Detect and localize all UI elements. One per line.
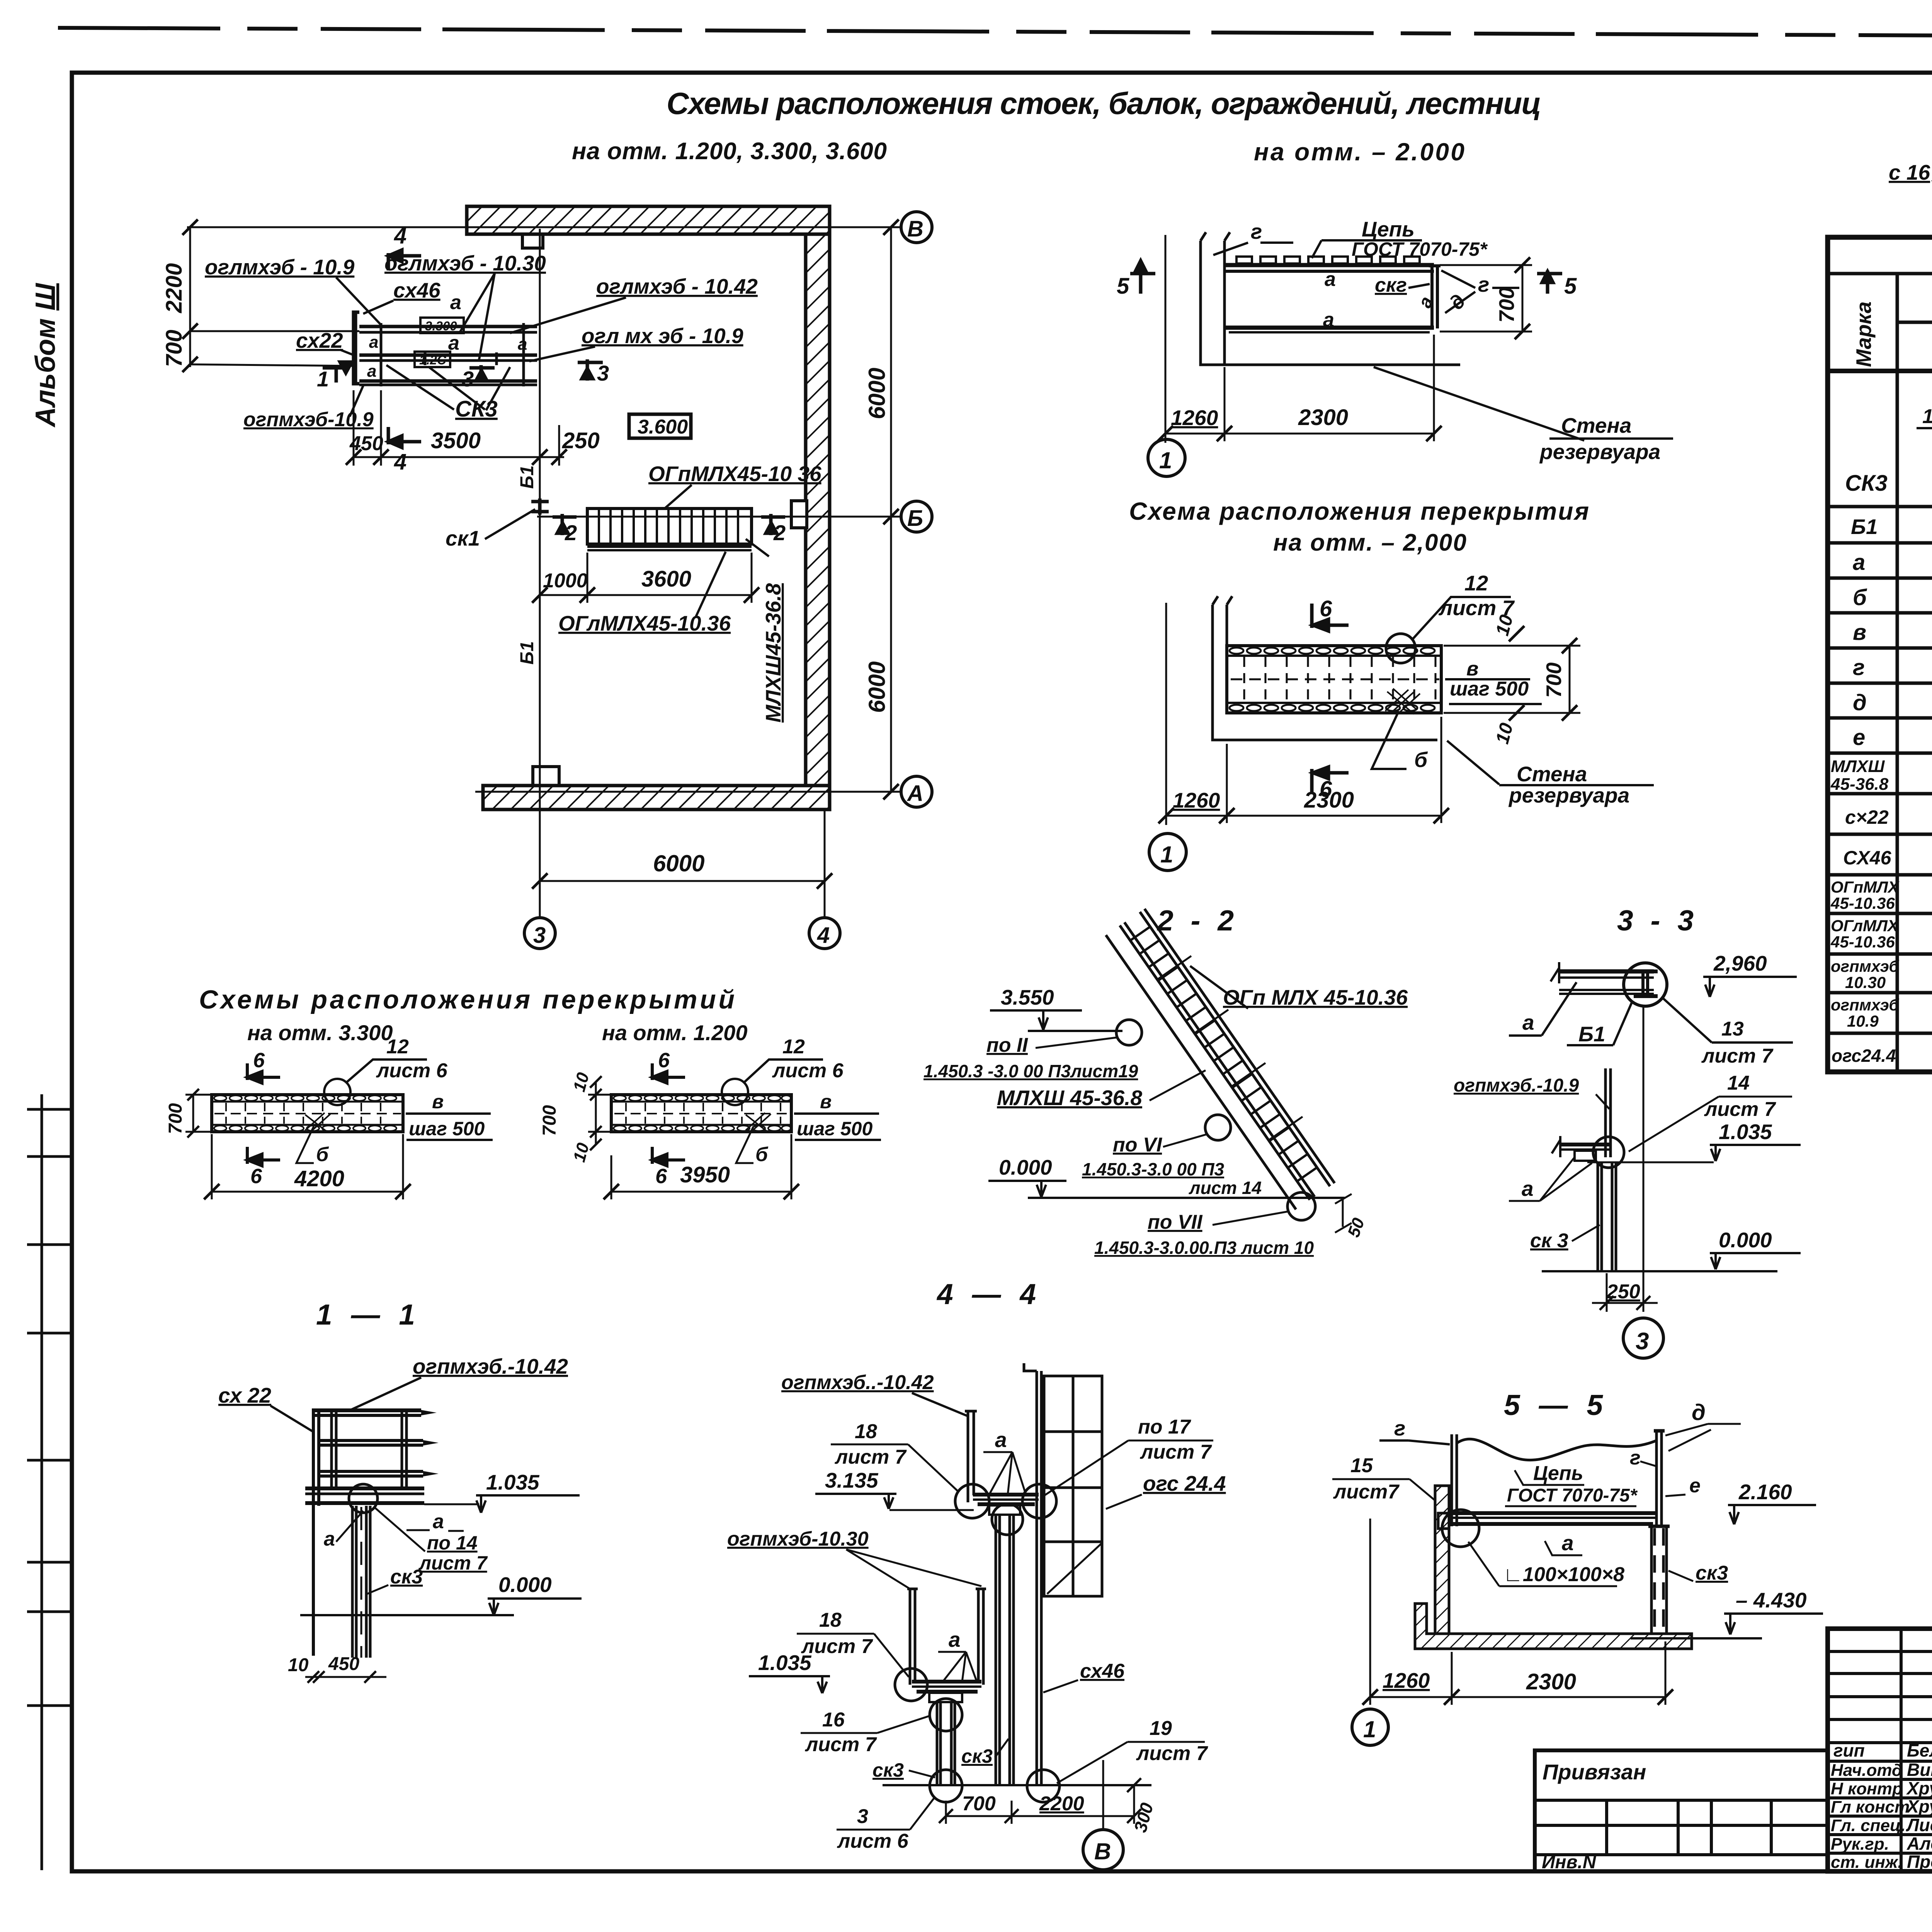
- svg-text:1260: 1260: [1173, 788, 1220, 812]
- 1.2C boxed mark: [415, 352, 450, 367]
- vertical angle bar: [1605, 1068, 1611, 1157]
- upper bracket left upright: [965, 1411, 977, 1502]
- svg-text:3 - 3: 3 - 3: [1617, 904, 1698, 937]
- svg-text:б: б: [1853, 585, 1867, 610]
- svg-text:1.035: 1.035: [486, 1470, 540, 1494]
- 1000/3600 dimension: [540, 594, 752, 596]
- svg-text:МЛХШ45-36.8: МЛХШ45-36.8: [761, 583, 785, 723]
- joint circle: [1442, 1510, 1479, 1547]
- svg-text:12: 12: [1464, 571, 1488, 595]
- signature table horizontals: [1828, 1651, 1932, 1853]
- railing balusters: [332, 1410, 406, 1488]
- ladder rungs: [1130, 927, 1317, 1181]
- svg-text:6: 6: [253, 1049, 265, 1072]
- svg-text:гип: гип: [1833, 1740, 1865, 1760]
- svg-text:резервуара: резервуара: [1508, 783, 1629, 807]
- axis line 4 vertical: [824, 810, 826, 918]
- column SK3: [1598, 1162, 1616, 1270]
- svg-text:по II: по II: [986, 1034, 1028, 1056]
- svg-text:г: г: [1394, 1416, 1405, 1440]
- bracket shelf: [1552, 1136, 1611, 1161]
- left bracket cx22: [354, 312, 359, 384]
- svg-text:огпмхэб.-10.9: огпмхэб.-10.9: [1454, 1075, 1579, 1096]
- svg-text:с×22: с×22: [1845, 806, 1889, 828]
- svg-text:6: 6: [655, 1165, 667, 1188]
- inclined ladder stringers: [1106, 909, 1335, 1209]
- svg-text:ОГп МЛХ 45-10.36: ОГп МЛХ 45-10.36: [1223, 985, 1408, 1009]
- svg-text:1 — 1: 1 — 1: [316, 1298, 420, 1331]
- svg-text:3500: 3500: [431, 428, 481, 453]
- svg-text:на отм. 1.200, 3.300, 3.600: на отм. 1.200, 3.300, 3.600: [572, 138, 887, 165]
- dims 1260/2300: [1370, 1696, 1665, 1698]
- svg-text:ск3: ск3: [390, 1566, 423, 1588]
- plan bottom wall (hatched): [483, 786, 830, 810]
- svg-text:450: 450: [328, 1654, 359, 1674]
- svg-text:сх 22: сх 22: [218, 1383, 271, 1407]
- svg-text:Б1: Б1: [517, 641, 537, 665]
- svg-text:1: 1: [1363, 1716, 1376, 1742]
- svg-text:Схема расположения перекрыти: Схема расположения перекрытия: [1129, 497, 1589, 525]
- svg-text:19: 19: [1150, 1717, 1172, 1740]
- svg-text:10: 10: [570, 1141, 593, 1164]
- water break wavy top: [1457, 1439, 1656, 1460]
- svg-text:е: е: [1853, 725, 1865, 750]
- axis circle 1: [1352, 1709, 1388, 1745]
- svg-text:а: а: [1415, 294, 1437, 311]
- beam at 1.200: [359, 354, 537, 357]
- left tank wall hatched: [1435, 1486, 1449, 1636]
- svg-text:шаг 500: шаг 500: [1450, 678, 1529, 700]
- section mark 2 left: [553, 514, 577, 535]
- signature table verticals: [1901, 1629, 1932, 1871]
- 3.300 boxed mark: [420, 318, 464, 333]
- svg-text:МЛХШ 45-36.8: МЛХШ 45-36.8: [997, 1086, 1142, 1110]
- section mark 1: [323, 362, 352, 383]
- 3950 dim: [611, 1191, 791, 1193]
- joint circles lower: [895, 1668, 927, 1701]
- svg-text:45-10.36: 45-10.36: [1830, 894, 1895, 912]
- svg-text:Винклер: Винклер: [1907, 1760, 1932, 1780]
- svg-text:а: а: [949, 1628, 961, 1651]
- svg-text:18: 18: [855, 1420, 877, 1443]
- axis line V: [187, 226, 901, 228]
- svg-text:5: 5: [1564, 274, 1577, 299]
- svg-text:В: В: [907, 216, 923, 241]
- svg-text:в: в: [1853, 620, 1866, 645]
- svg-text:2: 2: [565, 520, 577, 545]
- svg-text:В: В: [1094, 1838, 1111, 1864]
- svg-text:лист 7: лист 7: [804, 1733, 877, 1756]
- svg-text:лист 7: лист 7: [834, 1446, 907, 1468]
- svg-text:50: 50: [1344, 1215, 1368, 1240]
- section mark 5 right: [1537, 270, 1562, 294]
- svg-text:1.450.3 -3.0 00 П3лист19: 1.450.3 -3.0 00 П3лист19: [923, 1061, 1138, 1081]
- svg-text:ск3: ск3: [961, 1745, 993, 1767]
- svg-text:а: а: [450, 291, 461, 314]
- svg-text:б: б: [1414, 748, 1428, 772]
- detail circle po VII: [1287, 1192, 1315, 1220]
- svg-text:10: 10: [1492, 721, 1517, 746]
- cross-hatched patch: [1385, 689, 1420, 715]
- platform beam assembly: [354, 312, 537, 386]
- plan top wall (hatched): [467, 206, 830, 234]
- svg-text:1: 1: [1922, 405, 1932, 428]
- platform beam: [1438, 1513, 1656, 1529]
- slab 3.300 body: [212, 1095, 403, 1132]
- svg-text:а: а: [518, 335, 527, 354]
- svg-text:Хрупало: Хрупало: [1906, 1778, 1932, 1798]
- section mark 2 right: [761, 514, 785, 535]
- svg-text:1.2С: 1.2С: [419, 353, 447, 367]
- svg-text:700: 700: [1542, 662, 1566, 698]
- svg-text:огпмхэб..-10.42: огпмхэб..-10.42: [781, 1371, 934, 1394]
- ground line: [883, 1784, 1151, 1786]
- svg-text:Альбом Ш: Альбом Ш: [30, 283, 61, 428]
- top edge banding: [1227, 655, 1441, 657]
- svg-text:огл мх эб - 10.9: огл мх эб - 10.9: [582, 324, 743, 348]
- svg-text:13: 13: [1721, 1018, 1744, 1040]
- svg-text:оглмхэб - 10.30: оглмхэб - 10.30: [384, 251, 546, 275]
- svg-text:ск3: ск3: [1696, 1562, 1728, 1584]
- axis circle A: [901, 776, 932, 807]
- column SK3: [352, 1506, 370, 1658]
- svg-text:огпмхэб.-10.42: огпмхэб.-10.42: [413, 1354, 568, 1378]
- svg-text:ОГпМЛХ45-10 36: ОГпМЛХ45-10 36: [648, 462, 821, 486]
- svg-text:6: 6: [1320, 596, 1332, 621]
- svg-text:Гл конст: Гл конст: [1831, 1798, 1910, 1816]
- svg-text:а: а: [433, 1510, 444, 1533]
- svg-text:лист7: лист7: [1333, 1481, 1400, 1503]
- svg-text:Цепь: Цепь: [1362, 217, 1415, 241]
- svg-text:по VII: по VII: [1148, 1211, 1203, 1233]
- beam seat notch below top wall: [522, 234, 543, 248]
- 10/700/10 dims slab 1.200: [595, 1082, 597, 1145]
- wall notch at axis B: [791, 501, 807, 528]
- 10/450 dims: [305, 1676, 386, 1678]
- ground line: [1542, 1270, 1777, 1272]
- svg-text:г: г: [1853, 655, 1865, 680]
- svg-text:2 - 2: 2 - 2: [1156, 904, 1238, 937]
- section mark 6 bottom: [1312, 767, 1349, 794]
- left extension line: [1165, 235, 1167, 443]
- svg-text:г: г: [1251, 219, 1262, 243]
- svg-text:Б1: Б1: [1851, 515, 1878, 539]
- dims 700/2200/300: [946, 1815, 1134, 1817]
- detail circle slab 1.200: [722, 1079, 748, 1105]
- 6 marks slab 3.300: [247, 1063, 280, 1083]
- svg-text:Схемы расположения стоек,: Схемы расположения стоек, балок, огражде…: [667, 86, 1544, 121]
- svg-text:3.300: 3.300: [425, 319, 457, 333]
- svg-text:6: 6: [658, 1049, 670, 1072]
- svg-text:а: а: [367, 362, 376, 381]
- beam at 3.300: [359, 325, 537, 328]
- detail circle with I-beam B1: [1624, 963, 1667, 1006]
- stena rezervuara label: [1447, 741, 1499, 784]
- svg-text:1: 1: [1160, 842, 1173, 867]
- svg-text:на отм. – 2.000: на отм. – 2.000: [1254, 138, 1464, 166]
- left extension line: [1165, 603, 1167, 825]
- oval hatch top strip: [1230, 648, 1435, 711]
- main title block outer: [1828, 1629, 1932, 1871]
- svg-text:б: б: [316, 1143, 329, 1166]
- svg-text:на отм. 1.200: на отм. 1.200: [602, 1020, 747, 1045]
- svg-text:2200: 2200: [1039, 1793, 1084, 1815]
- right rail post: [1654, 1431, 1665, 1526]
- svg-text:Хрупало: Хрупало: [1906, 1796, 1932, 1816]
- svg-text:45-36.8: 45-36.8: [1830, 775, 1889, 794]
- svg-text:3.550: 3.550: [1001, 985, 1054, 1009]
- wall leader and label Stena rezervuara: [1374, 367, 1584, 440]
- svg-text:а: а: [1522, 1177, 1534, 1201]
- svg-text:10: 10: [570, 1070, 593, 1094]
- svg-text:Б1: Б1: [517, 465, 537, 489]
- bottom slab with concrete hatch: [1415, 1604, 1692, 1649]
- tall channel skh46: [1024, 1363, 1041, 1784]
- svg-text:г: г: [1478, 272, 1489, 296]
- svg-text:ст. инж.: ст. инж.: [1831, 1853, 1903, 1872]
- right 6000 dimension line: [890, 227, 892, 792]
- svg-text:огс24.4: огс24.4: [1832, 1046, 1896, 1066]
- svg-text:д: д: [1692, 1400, 1706, 1425]
- svg-text:г: г: [1630, 1447, 1641, 1469]
- fold tick marks: [27, 1109, 72, 1706]
- 6 marks slab 1.200: [652, 1063, 685, 1083]
- joint circle: [349, 1484, 378, 1513]
- svg-text:1.035: 1.035: [758, 1651, 812, 1675]
- slab 1.200 body: [611, 1095, 791, 1132]
- svg-text:10.30: 10.30: [1845, 973, 1886, 992]
- svg-text:3950: 3950: [680, 1162, 730, 1187]
- privyazan box: [1535, 1750, 1828, 1871]
- svg-text:лист 7: лист 7: [1701, 1045, 1774, 1067]
- axis circle B: [901, 501, 932, 532]
- tank wall corner: [1201, 241, 1460, 365]
- upper shelf: [973, 1495, 1039, 1515]
- svg-text:3: 3: [1636, 1328, 1649, 1355]
- svg-text:250: 250: [562, 428, 600, 453]
- lower shelf: [912, 1682, 981, 1702]
- detail circle slab 3.300: [324, 1079, 350, 1105]
- svg-text:12: 12: [782, 1036, 805, 1058]
- svg-text:6000: 6000: [864, 662, 890, 713]
- vertical stiffeners: [380, 323, 383, 386]
- svg-text:Лисичкин: Лисичкин: [1906, 1815, 1932, 1835]
- svg-text:оглмхэб - 10.9: оглмхэб - 10.9: [205, 255, 355, 279]
- SK3 sketch I-column: [1917, 395, 1932, 493]
- svg-text:лист 7: лист 7: [801, 1635, 873, 1658]
- svg-text:ОГлМЛХ45-10.36: ОГлМЛХ45-10.36: [558, 611, 731, 635]
- svg-text:700: 700: [962, 1793, 996, 1815]
- dimension 1260/2300: [1166, 815, 1441, 817]
- svg-text:45-10.36: 45-10.36: [1830, 933, 1895, 951]
- svg-text:оглмхэб - 10.42: оглмхэб - 10.42: [596, 274, 758, 298]
- svg-text:шаг 500: шаг 500: [409, 1118, 485, 1139]
- svg-text:3: 3: [597, 361, 609, 385]
- section mark 3 left: [469, 365, 495, 383]
- svg-text:0.000: 0.000: [999, 1155, 1052, 1179]
- svg-text:700: 700: [1495, 287, 1519, 323]
- axis circle 4: [809, 918, 840, 949]
- svg-text:Марка: Марка: [1852, 301, 1876, 367]
- table vertical grid: [1897, 274, 1932, 1072]
- svg-text:ОГпМЛХ: ОГпМЛХ: [1831, 878, 1900, 896]
- left extension to dim: [1369, 1519, 1371, 1705]
- svg-text:700: 700: [162, 330, 187, 367]
- svg-text:5 — 5: 5 — 5: [1504, 1389, 1608, 1421]
- svg-text:а: а: [324, 1528, 335, 1550]
- svg-text:в: в: [432, 1091, 444, 1112]
- svg-text:14: 14: [1727, 1072, 1750, 1094]
- svg-text:сх22: сх22: [296, 328, 343, 352]
- svg-text:а: а: [1853, 550, 1865, 575]
- svg-text:в: в: [1466, 658, 1478, 680]
- sk1 column I-symbol: [531, 498, 549, 515]
- svg-text:4 — 4: 4 — 4: [936, 1278, 1041, 1310]
- svg-text:с 16: с 16: [1889, 160, 1930, 184]
- svg-text:1260: 1260: [1383, 1668, 1430, 1692]
- detail circle po II: [1116, 1020, 1142, 1045]
- railing rails with arrows: [313, 1410, 423, 1476]
- axis line 3 vertical: [539, 229, 541, 918]
- right column dashed: [1648, 1526, 1670, 1636]
- svg-text:3: 3: [533, 923, 546, 948]
- svg-text:Б1: Б1: [1578, 1022, 1605, 1046]
- plan right wall (hatched): [806, 234, 830, 786]
- svg-text:ОГлМЛХ: ОГлМЛХ: [1831, 917, 1900, 935]
- svg-text:18: 18: [819, 1609, 842, 1631]
- svg-text:огс 24.4: огс 24.4: [1143, 1471, 1226, 1495]
- svg-text:е: е: [1689, 1475, 1701, 1497]
- svg-text:шаг 500: шаг 500: [797, 1118, 872, 1139]
- svg-text:3.600: 3.600: [638, 416, 688, 438]
- svg-text:СХ46: СХ46: [1843, 847, 1892, 869]
- section mark 6 top: [1312, 604, 1349, 631]
- interior dashes slab 3.300: [226, 1103, 381, 1124]
- svg-text:4: 4: [394, 223, 406, 248]
- svg-text:∟100×100×8: ∟100×100×8: [1503, 1563, 1624, 1586]
- svg-text:2300: 2300: [1298, 405, 1348, 430]
- svg-text:ГОСТ 7070-75*: ГОСТ 7070-75*: [1507, 1485, 1638, 1506]
- svg-text:а: а: [1323, 309, 1334, 331]
- grating panel ogs24.4: [1044, 1376, 1102, 1596]
- svg-text:сх46: сх46: [393, 278, 440, 302]
- axis circle 3: [524, 918, 555, 949]
- dimension 450/3500/250: [354, 456, 564, 458]
- lower column: [937, 1702, 955, 1784]
- section mark 4 top: [388, 250, 421, 270]
- interior rib dashes: [1244, 657, 1435, 702]
- svg-text:скг: скг: [1375, 274, 1407, 296]
- 700 vertical dimension: [1522, 265, 1524, 332]
- right end post g: [1429, 266, 1440, 328]
- svg-text:на отм. 3.300: на отм. 3.300: [247, 1020, 393, 1045]
- svg-text:лист 14: лист 14: [1189, 1178, 1262, 1198]
- svg-text:огпмхэб-10.30: огпмхэб-10.30: [727, 1528, 869, 1550]
- ground line: [1631, 1637, 1762, 1639]
- left 2200/700 dimension: [189, 227, 191, 367]
- svg-text:по VI: по VI: [1113, 1134, 1163, 1156]
- svg-text:Инв.N: Инв.N: [1542, 1852, 1597, 1872]
- section mark 4 bottom: [388, 427, 421, 447]
- svg-text:Гл. спец.: Гл. спец.: [1831, 1816, 1906, 1835]
- svg-text:ск3: ск3: [872, 1759, 904, 1781]
- svg-text:– 4.430: – 4.430: [1736, 1588, 1807, 1612]
- detail circle po VI: [1205, 1115, 1231, 1140]
- slab plan body: [1227, 646, 1441, 713]
- svg-text:1.450.3-3.0 00 П3: 1.450.3-3.0 00 П3: [1082, 1159, 1225, 1179]
- svg-text:в: в: [820, 1091, 832, 1112]
- svg-text:а: а: [995, 1428, 1007, 1452]
- dimension 1260/2300: [1165, 433, 1434, 435]
- svg-text:6000: 6000: [653, 850, 704, 876]
- section mark 5 left: [1130, 261, 1155, 294]
- oval hatch strips slab 3.300: [214, 1095, 396, 1131]
- tank wall corner lines: [1213, 605, 1437, 740]
- bottom 6000 dimension: [540, 880, 825, 882]
- svg-text:1.450.3-3.0.00.П3 лист 10: 1.450.3-3.0.00.П3 лист 10: [1094, 1238, 1314, 1258]
- svg-text:Б: Б: [907, 506, 923, 531]
- svg-text:лист 7: лист 7: [1136, 1742, 1208, 1765]
- svg-text:2: 2: [773, 520, 786, 545]
- svg-text:3: 3: [857, 1805, 868, 1828]
- svg-text:450: 450: [349, 432, 383, 455]
- svg-text:10: 10: [288, 1655, 309, 1675]
- svg-text:1000: 1000: [543, 570, 588, 592]
- svg-text:4200: 4200: [294, 1166, 344, 1191]
- svg-text:12: 12: [386, 1036, 409, 1058]
- svg-text:Алехова: Алехова: [1906, 1833, 1932, 1854]
- top beam: [1551, 962, 1654, 994]
- lower beam edge: [359, 379, 537, 383]
- 700 dim left: [192, 1095, 194, 1132]
- svg-text:3: 3: [462, 367, 474, 391]
- axis circle V: [1102, 1760, 1104, 1828]
- svg-text:Белоус: Белоус: [1907, 1740, 1932, 1760]
- 4200 dim: [212, 1191, 403, 1193]
- svg-text:Цепь: Цепь: [1533, 1462, 1583, 1485]
- svg-text:а: а: [448, 332, 459, 354]
- svg-text:ск1: ск1: [446, 526, 480, 550]
- element list table outer border: [1828, 237, 1932, 1072]
- top trim dashed line: [58, 28, 1932, 39]
- svg-text:3.135: 3.135: [825, 1468, 879, 1492]
- svg-text:3600: 3600: [641, 566, 691, 592]
- svg-text:огпмхэб: огпмхэб: [1831, 996, 1899, 1014]
- svg-text:лист 6: лист 6: [772, 1060, 844, 1082]
- svg-text:сх46: сх46: [1080, 1660, 1125, 1682]
- svg-text:2300: 2300: [1526, 1669, 1576, 1694]
- svg-text:лист 6: лист 6: [376, 1060, 448, 1082]
- axis circle V: [901, 212, 932, 243]
- svg-text:по 14: по 14: [427, 1532, 478, 1554]
- svg-text:4: 4: [394, 449, 406, 474]
- svg-text:1.035: 1.035: [1719, 1120, 1772, 1144]
- svg-text:Нач.отд: Нач.отд: [1831, 1761, 1902, 1780]
- railing left post: [313, 1408, 319, 1656]
- svg-text:16: 16: [822, 1709, 845, 1731]
- svg-text:а: а: [1522, 1010, 1534, 1034]
- svg-text:Рук.гр.: Рук.гр.: [1831, 1835, 1889, 1854]
- svg-text:2200: 2200: [162, 263, 187, 313]
- svg-text:а: а: [369, 333, 378, 352]
- svg-text:Стена: Стена: [1561, 413, 1631, 437]
- ground line: [300, 1614, 514, 1616]
- svg-text:0.000: 0.000: [498, 1573, 552, 1597]
- svg-text:Схемы расположения перекрыти: Схемы расположения перекрытий: [199, 985, 736, 1014]
- svg-text:700: 700: [165, 1103, 186, 1134]
- svg-text:лист 7: лист 7: [1139, 1441, 1212, 1463]
- svg-text:5: 5: [1117, 274, 1129, 299]
